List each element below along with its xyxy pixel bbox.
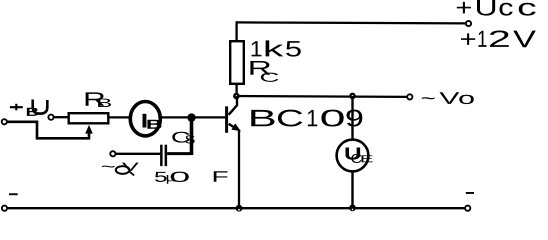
- label UCE: [346, 148, 373, 164]
- label ~v alpha glyph: [116, 166, 130, 174]
- wire RC top lead: [235, 21, 237, 41]
- label ~v tilde: [102, 166, 115, 168]
- wire RC bottom lead: [235, 84, 237, 96]
- wire VCE top lead: [351, 96, 353, 140]
- wire input to wiper: [7, 122, 89, 139]
- terminal ground left: [2, 206, 7, 211]
- label F: [214, 171, 228, 182]
- node VCE-ground: [349, 205, 356, 212]
- transistor Q1 collector lead: [229, 96, 237, 115]
- terminal ground right: [465, 206, 470, 211]
- wire source to capacitor: [116, 153, 160, 155]
- node collector: [233, 93, 240, 100]
- meter UCE: [337, 140, 369, 172]
- label +UB U glyph: [33, 100, 48, 114]
- terminal +UB: [48, 115, 53, 120]
- wiper arrow: [85, 125, 93, 134]
- label ~v V: [122, 163, 139, 171]
- wire emitter down: [238, 131, 240, 209]
- terminal ~v source: [110, 151, 115, 156]
- capacitor CS plate left: [160, 145, 163, 166]
- label IB subscript: [147, 120, 161, 129]
- value 5u0: [155, 172, 189, 184]
- terminal input lower: [2, 119, 7, 124]
- label CS: [172, 132, 194, 144]
- wire VCE bottom lead: [351, 171, 353, 208]
- label ~Vo: [422, 92, 474, 104]
- label RC: [250, 61, 278, 82]
- node base-capacitor junction: [187, 113, 195, 121]
- label minus right: [466, 192, 474, 194]
- meter IB: [130, 102, 160, 136]
- wire RB to IB meter: [109, 116, 130, 118]
- wire capacitor to junction horizontal: [167, 152, 191, 155]
- wire top supply rail: [237, 22, 466, 23]
- transistor Q1 emitter arrow: [231, 123, 241, 131]
- wire ground rail: [6, 207, 467, 209]
- wire collector to output: [236, 95, 406, 98]
- wire +UB terminal to RB: [54, 116, 68, 118]
- value 1k5: [252, 40, 301, 56]
- transistor Q1 base bar: [225, 106, 228, 132]
- label minus left: [9, 193, 18, 195]
- capacitor CS plate right: [165, 145, 168, 166]
- resistor RC body: [230, 41, 244, 84]
- wire IB to base: [161, 116, 225, 118]
- node emitter-ground: [236, 205, 243, 212]
- wire capacitor junction vertical: [190, 118, 194, 155]
- label +Ucc supply: [457, 0, 536, 16]
- label BC109: [251, 110, 362, 127]
- label +UB B subscript: [27, 108, 38, 116]
- node VCE branch: [349, 93, 356, 100]
- label +UB plus sign: [10, 106, 23, 108]
- transistor Q1 emitter lead: [229, 124, 236, 129]
- resistor RB body (potentiometer): [69, 113, 109, 123]
- label RB: [86, 92, 111, 107]
- terminal ~Vo: [407, 94, 412, 99]
- label IB I bar: [143, 114, 147, 128]
- label +12V: [461, 30, 536, 47]
- terminal +Ucc: [466, 21, 471, 26]
